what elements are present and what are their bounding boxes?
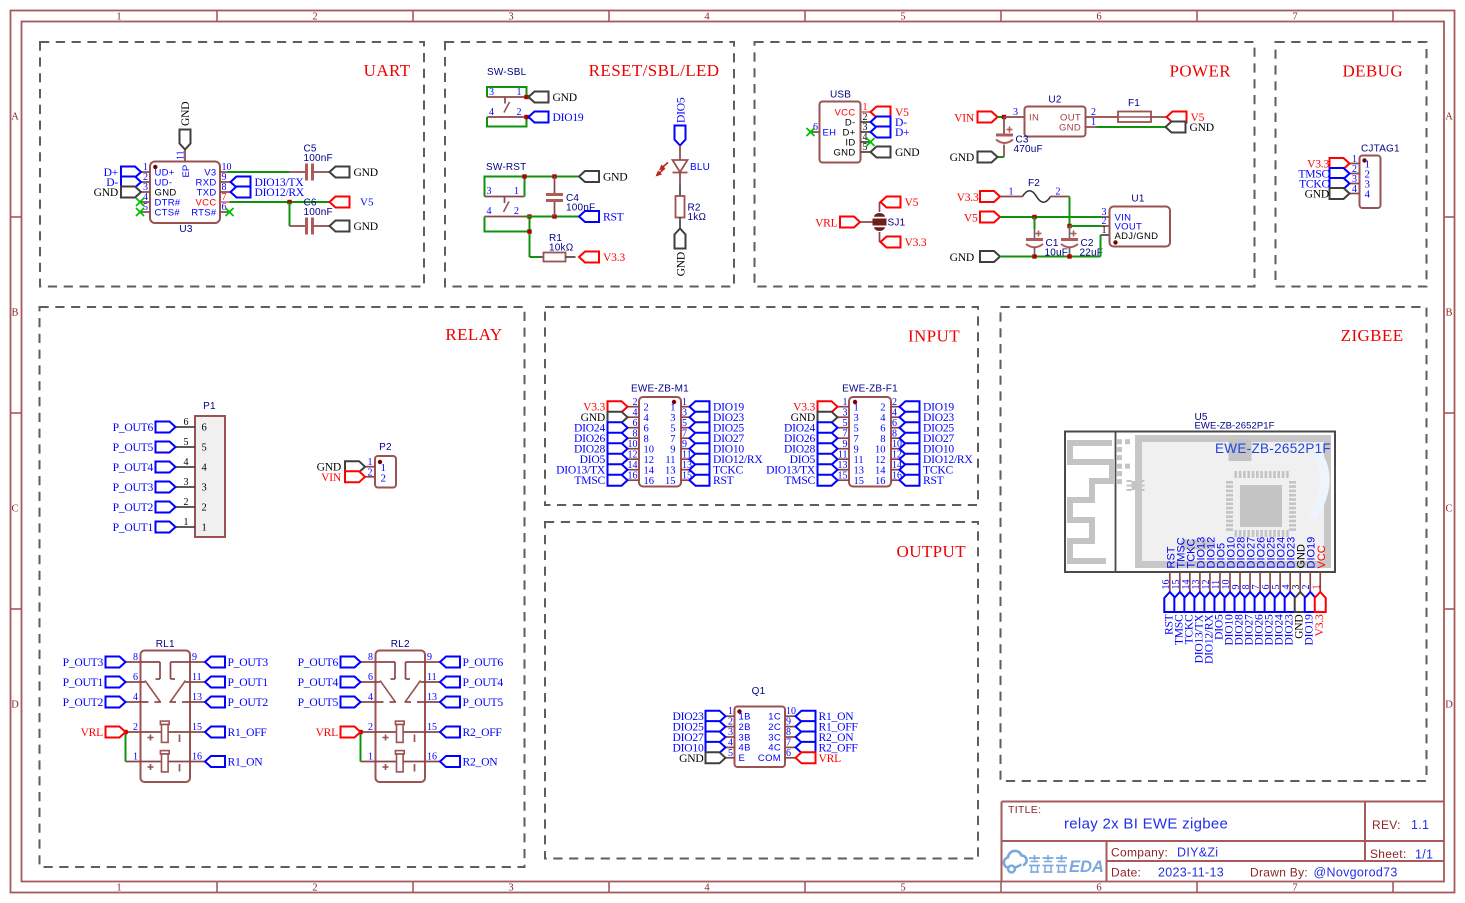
svg-text:5: 5: [900, 883, 905, 894]
pin 10 stub (U5): [1221, 572, 1232, 592]
svg-text:2: 2: [202, 503, 207, 514]
svg-text:2: 2: [644, 403, 649, 414]
svg-text:2B: 2B: [739, 722, 751, 733]
net flag DIO26 (EWE-ZB-M1 left): [574, 432, 627, 445]
net flag D+ (USB): [871, 126, 910, 139]
resistor R1: [540, 233, 576, 262]
net flag DIO24 (EWE-ZB-M1 left): [574, 422, 627, 435]
wire U2 GND: [1097, 126, 1166, 128]
junction SBL pin1: [524, 95, 528, 99]
svg-text:7: 7: [854, 434, 859, 445]
svg-text:4: 4: [1352, 184, 1357, 195]
svg-text:D: D: [11, 700, 19, 711]
title block Sheet: [1370, 847, 1433, 862]
net flag DIO23 (EWE-ZB-F1 right): [900, 411, 955, 424]
no-connect X pin5: [136, 208, 144, 216]
svg-text:Sheet:: Sheet:: [1370, 847, 1407, 861]
net flag P_OUT2 (RL1 right): [205, 696, 268, 709]
net flag DIO28 (U5 pin 9): [1233, 592, 1246, 645]
net flag DIO12/RX (EWE-ZB-M1 right): [690, 453, 764, 466]
junction gnd C1: [1032, 254, 1036, 258]
ground flag GND (C1 C2): [950, 251, 1000, 264]
net flag P_OUT6 (RL2 right): [440, 656, 503, 669]
svg-text:2: 2: [880, 403, 885, 414]
svg-text:16: 16: [875, 476, 886, 487]
junction RST bottom: [527, 229, 531, 233]
svg-text:Company:: Company:: [1111, 846, 1168, 860]
pin 5 stub (U5): [1271, 572, 1282, 592]
net flag DIO25 (EWE-ZB-F1 right): [900, 422, 955, 435]
net flag DIO27 (U5 pin 8): [1243, 592, 1256, 645]
svg-text:4: 4: [202, 463, 208, 474]
net flag DIO27 (EWE-ZB-F1 right): [900, 432, 955, 445]
svg-text:4: 4: [1365, 189, 1371, 201]
svg-text:P2: P2: [379, 442, 392, 453]
wire RST top loop: [485, 177, 580, 197]
net flag DIO27 (Q1 left): [673, 731, 726, 744]
svg-text:GND: GND: [950, 151, 974, 164]
net flag V3.3 (U5 pin 1): [1313, 592, 1326, 636]
pin 14 stub (U5): [1181, 572, 1192, 592]
power flag VIN (U2): [954, 112, 997, 125]
capacitor C6: [290, 198, 333, 235]
svg-text:1: 1: [517, 87, 522, 98]
pin 13 stub (U5): [1191, 572, 1202, 592]
net flag DIO13/TX (EWE-ZB-F1 left): [766, 464, 837, 477]
svg-text:13: 13: [427, 692, 437, 703]
net flag D- (USB): [871, 116, 908, 129]
LED BLU: [656, 160, 711, 177]
junction VIN: [1002, 115, 1006, 119]
svg-text:3: 3: [508, 883, 513, 894]
svg-text:P_OUT3: P_OUT3: [113, 481, 154, 494]
svg-text:GND: GND: [179, 102, 192, 126]
svg-text:3: 3: [184, 477, 189, 488]
svg-text:6: 6: [644, 424, 649, 435]
section title OUTPUT: [897, 542, 967, 561]
net flag DIO5 (EWE-ZB-F1 left): [790, 453, 838, 466]
net flag DIO25 (Q1 left): [673, 721, 726, 734]
net flag TCKC (EWE-ZB-F1 right): [900, 464, 954, 477]
pin 1 stub (U5): [1311, 572, 1322, 592]
svg-text:VIN: VIN: [321, 471, 342, 484]
svg-text:P_OUT5: P_OUT5: [113, 441, 154, 454]
svg-text:2: 2: [517, 107, 522, 118]
wire F2 down: [1069, 197, 1071, 227]
net flag RST (U5 pin 16): [1162, 592, 1175, 635]
svg-text:DIO5: DIO5: [675, 97, 688, 123]
wire SBL top loop: [487, 87, 527, 97]
section title RELAY: [445, 325, 502, 344]
junction VCC node: [287, 200, 291, 204]
svg-text:1: 1: [368, 752, 373, 763]
section box INPUT: [545, 307, 978, 505]
net flag DIO27 (EWE-ZB-M1 right): [690, 432, 745, 445]
svg-text:D: D: [1445, 700, 1453, 711]
svg-text:GND: GND: [553, 91, 577, 104]
svg-text:5: 5: [854, 424, 859, 435]
svg-text:2: 2: [381, 472, 387, 484]
svg-text:7: 7: [1292, 883, 1297, 894]
svg-text:SW-RST: SW-RST: [486, 162, 526, 173]
svg-text:F2: F2: [1028, 178, 1040, 189]
svg-text:15: 15: [192, 722, 202, 733]
title block frame: [1002, 802, 1445, 882]
capacitor C2: [1061, 226, 1103, 259]
connector CJTAG1: [1350, 144, 1401, 209]
fuse F1: [1097, 98, 1167, 122]
junction RL2 VRL: [358, 730, 362, 734]
svg-text:CTS#: CTS#: [155, 207, 181, 218]
regulator U2: [1004, 95, 1097, 137]
svg-text:P_OUT6: P_OUT6: [463, 656, 504, 669]
section box ZIGBEE: [1001, 307, 1427, 781]
svg-text:1.1: 1.1: [1411, 818, 1429, 832]
no-connect X USB EH: [807, 128, 815, 136]
svg-text:1kΩ: 1kΩ: [688, 212, 707, 223]
svg-text:10kΩ: 10kΩ: [549, 243, 574, 254]
svg-text:13: 13: [192, 692, 202, 703]
svg-text:14: 14: [875, 466, 886, 477]
svg-text:3: 3: [854, 413, 859, 424]
power flag V5 (F1): [1167, 111, 1205, 124]
svg-text:12: 12: [644, 455, 655, 466]
svg-text:R1_ON: R1_ON: [228, 756, 264, 769]
svg-text:15: 15: [665, 476, 676, 487]
svg-text:1: 1: [133, 752, 138, 763]
svg-text:P_OUT4: P_OUT4: [113, 461, 154, 474]
svg-text:3: 3: [487, 186, 492, 197]
logo JLC EDA: [1004, 851, 1104, 876]
ground flag GND (C5): [330, 166, 378, 179]
net flag DIO10 (Q1 left): [673, 741, 726, 754]
net flag P_OUT3 (RL1 right): [205, 656, 268, 669]
title block REV: [1372, 818, 1429, 832]
svg-text:1: 1: [1311, 585, 1322, 590]
svg-text:U2: U2: [1048, 95, 1061, 106]
svg-text:7: 7: [1292, 12, 1297, 23]
title block Company: [1111, 846, 1218, 860]
capacitor C5: [290, 144, 333, 181]
section title DEBUG: [1342, 62, 1403, 81]
svg-text:RST: RST: [713, 474, 734, 487]
svg-text:EDA: EDA: [1069, 858, 1104, 876]
net flag V3.3 (EWE-ZB-F1 left): [793, 401, 837, 414]
net flag DIO5 (LED): [675, 97, 688, 145]
net flag DIO24 (U5 pin 5): [1273, 592, 1286, 645]
svg-text:4: 4: [704, 12, 710, 23]
svg-text:3C: 3C: [768, 732, 781, 743]
svg-text:V5: V5: [360, 197, 374, 209]
net flag D-: [106, 176, 141, 189]
svg-text:15: 15: [427, 722, 437, 733]
section title UART: [364, 61, 411, 80]
ground flag GND (U3 pin3): [94, 186, 141, 199]
power flag V5 (UART): [330, 197, 374, 209]
svg-text:11: 11: [192, 672, 202, 683]
net flag DIO26 (U5 pin 7): [1253, 592, 1266, 645]
svg-text:5: 5: [670, 424, 675, 435]
svg-text:@Novgorod73: @Novgorod73: [1314, 866, 1398, 880]
svg-text:2: 2: [514, 206, 519, 217]
svg-text:8: 8: [880, 434, 885, 445]
wire RL1 coil link: [125, 732, 127, 762]
svg-text:4: 4: [133, 692, 138, 703]
pin 11 stub (U5): [1211, 572, 1222, 592]
net flag P_OUT5 (RL2 right): [440, 696, 503, 709]
svg-text:R2_ON: R2_ON: [463, 756, 499, 769]
pin 3 stub (U5): [1291, 572, 1302, 592]
svg-text:EWE-ZB-F1: EWE-ZB-F1: [842, 384, 898, 395]
title block title text: [1064, 816, 1228, 833]
section title RESET/SBL/LED: [589, 61, 720, 80]
svg-text:6: 6: [133, 672, 138, 683]
net flag DIO13/TX (U5 pin 13): [1192, 592, 1205, 663]
svg-text:P_OUT6: P_OUT6: [113, 421, 154, 434]
svg-text:P_OUT1: P_OUT1: [113, 521, 154, 534]
svg-text:B: B: [11, 308, 18, 319]
power flag V3.3 (CJTAG1): [1307, 158, 1349, 171]
pin 6 stub (U5): [1261, 572, 1272, 592]
svg-text:4: 4: [487, 206, 492, 217]
svg-text:REV:: REV:: [1372, 818, 1401, 832]
svg-text:U1: U1: [1131, 194, 1144, 205]
svg-text:3: 3: [489, 87, 494, 98]
svg-text:IN: IN: [1029, 112, 1039, 123]
svg-text:P_OUT3: P_OUT3: [228, 656, 269, 669]
svg-text:P_OUT5: P_OUT5: [298, 696, 339, 709]
svg-text:A: A: [1445, 112, 1453, 123]
fuse F2: [1000, 178, 1070, 202]
net flag DIO19 (EWE-ZB-F1 right): [900, 401, 955, 414]
net flag DIO19 (EWE-ZB-M1 right): [690, 401, 745, 414]
svg-text:4C: 4C: [768, 743, 781, 754]
svg-text:DIY&Zi: DIY&Zi: [1177, 846, 1218, 860]
ground flag GND (U2): [1166, 121, 1214, 134]
ground flag GND (CJTAG1): [1305, 188, 1350, 201]
net flag R1_ON (RL1): [205, 756, 263, 769]
svg-text:SJ1: SJ1: [888, 218, 906, 229]
power flag VRL (RL1): [81, 726, 126, 739]
net flag GND (U5 pin 3): [1293, 592, 1306, 639]
net flag D+: [104, 166, 141, 179]
junction gnd C2: [1067, 254, 1071, 258]
svg-text:EH: EH: [823, 127, 837, 138]
ground flag GND (SW-SBL): [529, 91, 577, 104]
connector EWE-ZB-M1: [628, 384, 693, 488]
svg-text:5: 5: [863, 142, 868, 153]
svg-text:GND: GND: [1059, 122, 1081, 133]
svg-text:INPUT: INPUT: [908, 327, 960, 346]
svg-text:4: 4: [644, 413, 650, 424]
wire V5 to U1: [1000, 216, 1102, 218]
svg-text:6: 6: [880, 424, 885, 435]
svg-text:3: 3: [508, 12, 513, 23]
svg-text:4: 4: [184, 457, 189, 468]
svg-text:1: 1: [202, 523, 207, 534]
svg-text:GND: GND: [1190, 121, 1214, 134]
svg-text:1/1: 1/1: [1415, 848, 1433, 862]
net flag R1_OFF (Q1 right): [796, 721, 859, 734]
svg-text:P_OUT4: P_OUT4: [298, 676, 339, 689]
svg-text:GND: GND: [950, 251, 974, 264]
svg-text:3: 3: [1013, 107, 1018, 118]
svg-text:13: 13: [854, 466, 865, 477]
svg-text:1: 1: [184, 517, 189, 528]
svg-text:GND: GND: [833, 147, 855, 158]
svg-text:4: 4: [489, 107, 494, 118]
svg-text:C: C: [1445, 504, 1452, 515]
svg-text:VRL: VRL: [81, 726, 104, 739]
junction SBL pin2: [524, 115, 528, 119]
section box RELAY: [40, 307, 525, 867]
net flag RST (EWE-ZB-M1 right): [690, 474, 734, 487]
net flag R2_ON (RL2): [440, 756, 498, 769]
svg-text:2: 2: [368, 722, 373, 733]
svg-text:TITLE:: TITLE:: [1008, 804, 1041, 816]
svg-text:P_OUT4: P_OUT4: [463, 676, 504, 689]
svg-text:1: 1: [116, 883, 121, 894]
svg-text:ADJ/GND: ADJ/GND: [1115, 231, 1159, 242]
svg-text:P_OUT5: P_OUT5: [463, 696, 504, 709]
section box OUTPUT: [545, 522, 978, 859]
wire VIN node: [998, 116, 1005, 118]
svg-text:V3.3: V3.3: [603, 251, 625, 264]
wire RST to flag: [525, 216, 580, 218]
svg-text:5: 5: [184, 437, 189, 448]
svg-text:5: 5: [900, 12, 905, 23]
power flag V5 (USB): [871, 106, 910, 119]
svg-text:VCC: VCC: [1316, 545, 1328, 568]
resistor R2: [676, 196, 707, 229]
net flag DIO13/TX (EWE-ZB-M1 left): [556, 464, 627, 477]
svg-text:P_OUT2: P_OUT2: [228, 696, 269, 709]
svg-text:10: 10: [644, 445, 655, 456]
net flag P_OUT4 (RL2 left): [298, 676, 361, 689]
svg-text:C: C: [11, 504, 18, 515]
wire SBL bottom loop: [487, 117, 527, 127]
capacitor C4: [546, 177, 595, 217]
connector P1: [176, 401, 226, 537]
svg-text:10: 10: [875, 445, 886, 456]
svg-text:6: 6: [368, 672, 373, 683]
svg-text:V3.3: V3.3: [1313, 614, 1326, 636]
wire V3 to C5: [227, 171, 290, 173]
net flag DIO5 (EWE-ZB-M1 left): [580, 453, 628, 466]
svg-text:BLU: BLU: [690, 162, 710, 173]
power flag V3.3 (R1): [579, 251, 625, 264]
junction RST C4: [552, 214, 556, 218]
wire C2 to VOUT: [1070, 225, 1102, 227]
svg-text:11: 11: [427, 672, 437, 683]
svg-text:GND: GND: [895, 146, 919, 159]
net flag P_OUT6 (P1): [113, 421, 176, 434]
svg-text:RTS#: RTS#: [191, 207, 217, 218]
svg-text:11: 11: [854, 455, 864, 466]
ground flag GND (U3 pin11): [179, 102, 192, 150]
net flag P_OUT4 (RL2 right): [440, 676, 503, 689]
net flag R1_ON (Q1 right): [796, 710, 855, 723]
net flag P_OUT5 (P1): [113, 441, 176, 454]
pin 2 stub (U5): [1301, 572, 1312, 592]
net flag P_OUT1 (RL1 left): [63, 676, 126, 689]
net flag DIO26 (EWE-ZB-F1 left): [784, 432, 837, 445]
svg-text:9: 9: [427, 652, 432, 663]
net flag DIO24 (EWE-ZB-F1 left): [784, 422, 837, 435]
svg-text:1B: 1B: [739, 712, 751, 723]
svg-text:V5: V5: [964, 212, 978, 225]
regulator U1: [1101, 194, 1171, 247]
net flag TMSC (CJTAG1): [1298, 168, 1349, 181]
junction VOUT C2: [1067, 224, 1071, 228]
svg-text:VIN: VIN: [954, 112, 975, 125]
pin 4 stub (U5): [1281, 572, 1292, 592]
net flag DIO23 (Q1 left): [673, 710, 726, 723]
svg-text:5: 5: [202, 443, 207, 454]
net flag DIO12/RX: [231, 186, 305, 199]
net flag RST: [579, 211, 624, 224]
svg-text:VRL: VRL: [819, 752, 842, 765]
svg-text:16: 16: [427, 752, 437, 763]
net flag DIO10 (U5 pin 10): [1222, 592, 1235, 645]
svg-text:3B: 3B: [739, 732, 751, 743]
svg-text:15: 15: [854, 476, 865, 487]
svg-text:6: 6: [1096, 883, 1101, 894]
svg-text:E: E: [739, 753, 746, 764]
svg-text:DEBUG: DEBUG: [1342, 62, 1403, 81]
svg-text:6: 6: [202, 423, 207, 434]
wire C3 gnd: [998, 156, 1005, 158]
section title INPUT: [908, 327, 960, 346]
net flag P_OUT2 (RL1 left): [63, 696, 126, 709]
svg-text:2: 2: [368, 467, 373, 478]
net flag P_OUT3 (P1): [113, 481, 176, 494]
svg-text:2: 2: [133, 722, 138, 733]
svg-text:16: 16: [192, 752, 202, 763]
power flag V3.3 (SJ1): [881, 236, 927, 249]
svg-text:D+: D+: [895, 126, 909, 139]
switch SW-RST: [485, 162, 527, 217]
power flag VRL (RL2): [316, 726, 361, 739]
net flag TCKC (CJTAG1): [1299, 178, 1349, 191]
net flag TMSC (EWE-ZB-F1 left): [784, 474, 837, 487]
connector EWE-ZB-F1: [838, 384, 903, 488]
svg-text:EWE-ZB-M1: EWE-ZB-M1: [631, 384, 689, 395]
svg-text:3: 3: [670, 413, 675, 424]
net flag P_OUT5 (RL2 left): [298, 696, 361, 709]
net flag DIO19 (SW-SBL): [529, 111, 584, 124]
junction RST pin2: [527, 214, 531, 218]
ground flag GND (SW-RST): [579, 171, 627, 184]
net flag DIO13/TX: [231, 176, 305, 189]
net flag GND (EWE-ZB-M1 left): [581, 411, 628, 424]
svg-text:1: 1: [854, 403, 859, 414]
net flag DIO12/RX (EWE-ZB-F1 right): [900, 453, 974, 466]
solder jumper SJ1: [860, 202, 906, 242]
wire RL2 coil link: [360, 732, 362, 762]
svg-text:RL2: RL2: [391, 639, 410, 650]
svg-text:1: 1: [670, 403, 675, 414]
svg-text:4: 4: [368, 692, 373, 703]
net flag R1_OFF (RL1): [205, 726, 267, 739]
svg-text:11: 11: [176, 150, 187, 160]
svg-text:RESET/SBL/LED: RESET/SBL/LED: [589, 61, 720, 80]
wire RST bottom loop: [485, 217, 530, 258]
svg-text:B: B: [1445, 308, 1452, 319]
net flag V3.3 (EWE-ZB-M1 left): [583, 401, 627, 414]
svg-text:100nF: 100nF: [304, 207, 333, 218]
junction RST top b: [552, 174, 556, 178]
